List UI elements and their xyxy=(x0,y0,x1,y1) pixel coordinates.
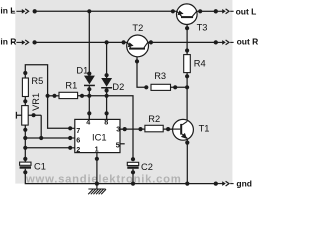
wire D2 cathode to IC pin 8 xyxy=(106,88,108,119)
wire VR1 bottom column xyxy=(24,125,26,162)
transistor T2 xyxy=(124,35,151,57)
wiper end bar xyxy=(15,112,17,119)
svg-text:T1: T1 xyxy=(199,124,210,134)
node C1 top xyxy=(23,157,27,161)
potentiometer VR1 xyxy=(22,106,29,126)
wire IC pin1 down to ground xyxy=(96,153,98,184)
wire C1 bottom to rail xyxy=(25,169,216,184)
node R2 left xyxy=(138,127,142,131)
node R3-R4 junction xyxy=(185,85,189,89)
node D2 bus junction xyxy=(105,94,109,98)
wire IC pin3 to R2 xyxy=(120,128,145,130)
svg-text:out R: out R xyxy=(237,37,258,47)
svg-text:R1: R1 xyxy=(65,81,77,91)
wire R5 to VR1 xyxy=(24,97,26,106)
ground xyxy=(88,184,106,195)
svg-text:8: 8 xyxy=(104,117,108,126)
wire T2 to out R xyxy=(151,41,216,43)
node D1 anode xyxy=(87,72,91,76)
node R4 top xyxy=(185,48,189,52)
page background xyxy=(0,0,258,195)
svg-text:in L: in L xyxy=(0,6,15,16)
wire wiper down to pin6 row xyxy=(40,115,42,138)
wire node bus y96 xyxy=(48,95,59,97)
wire T3 base drop to R4 xyxy=(186,18,188,55)
wire D1 branch xyxy=(88,11,90,75)
wire R5 top feed xyxy=(25,65,47,96)
svg-text:R4: R4 xyxy=(194,59,206,69)
wire in R row left of T2 xyxy=(35,41,124,43)
node R1 right xyxy=(80,94,84,98)
svg-text:C2: C2 xyxy=(141,162,153,172)
node R3 left xyxy=(144,85,148,89)
IC pin 2 stub xyxy=(70,147,75,149)
node IC pin3 xyxy=(123,127,127,131)
wire pin6 row xyxy=(25,137,70,139)
node R3 right xyxy=(173,85,177,89)
node IC pin1 xyxy=(95,157,99,161)
node R4 bottom xyxy=(185,74,189,78)
node VR1 bottom xyxy=(23,128,27,132)
svg-text:1: 1 xyxy=(95,145,99,154)
svg-text:VR1: VR1 xyxy=(31,93,41,111)
node IC pin4 xyxy=(87,111,91,115)
IC pin 3 stub xyxy=(120,128,125,130)
resistor R1 xyxy=(59,92,78,98)
node R2 right xyxy=(166,127,170,131)
node IC pin8 xyxy=(105,111,109,115)
node pin2 row left xyxy=(23,146,27,150)
node D2 anode xyxy=(105,73,109,77)
node T3 collector xyxy=(198,9,202,13)
node rail gnd junction xyxy=(95,182,99,186)
node T2 collector xyxy=(149,40,153,44)
transistor T1 xyxy=(168,119,193,140)
resistor R2 xyxy=(145,125,163,132)
node VR1 wiper tie xyxy=(31,113,35,117)
node IC pin7 xyxy=(68,126,72,130)
wire C2 column xyxy=(132,169,134,184)
node IC pin2 xyxy=(68,146,72,150)
node D2 top junction xyxy=(105,40,109,44)
resistor R4 xyxy=(184,55,191,73)
diode D2 xyxy=(101,78,112,89)
svg-text:in R: in R xyxy=(0,37,16,47)
node D1 bus junction xyxy=(87,94,91,98)
node rail C2 junction xyxy=(131,182,135,186)
svg-text:out L: out L xyxy=(236,7,257,17)
svg-text:R5: R5 xyxy=(31,76,43,86)
wire D1 cathode to IC pin 4 xyxy=(88,86,90,119)
capacitor C1 xyxy=(20,162,31,169)
node D2 cathode xyxy=(105,88,109,92)
connector out R xyxy=(214,40,234,45)
node R1 left xyxy=(52,94,56,98)
node C2 bottom xyxy=(131,170,135,174)
svg-text:4: 4 xyxy=(86,117,90,126)
wire R4 down to T1 collector xyxy=(186,73,188,121)
node T2 emitter xyxy=(122,40,126,44)
node T3 base xyxy=(185,26,189,30)
svg-text:D2: D2 xyxy=(112,82,124,92)
node D1 top junction xyxy=(87,9,91,13)
wire IC pin8 stub xyxy=(106,113,108,119)
wire R3 to R4 junction xyxy=(171,86,188,88)
svg-text:IC1: IC1 xyxy=(92,132,107,143)
svg-text:T2: T2 xyxy=(132,23,143,33)
resistor R5 xyxy=(22,78,28,97)
wire D2 branch xyxy=(106,42,108,78)
capacitor C2 xyxy=(127,162,138,168)
svg-text:2: 2 xyxy=(76,145,80,154)
svg-text:7: 7 xyxy=(76,126,80,135)
svg-text:5: 5 xyxy=(116,140,120,149)
wire pin2 row xyxy=(25,147,70,149)
node T2 base xyxy=(135,59,139,63)
wire in L row xyxy=(35,10,173,12)
svg-text:T3: T3 xyxy=(197,23,208,33)
node T3 emitter xyxy=(171,9,175,13)
wire T2 base drop to R3 xyxy=(137,49,146,87)
wire R2 to T1 base xyxy=(163,128,180,130)
node R5 top xyxy=(23,71,27,75)
svg-text:6: 6 xyxy=(76,136,80,145)
wire R1 right to D2 and down to R2 row xyxy=(78,96,133,159)
svg-text:gnd: gnd xyxy=(236,178,252,188)
wire T1 emitter down to rail xyxy=(186,138,188,183)
resistor R3 xyxy=(151,84,171,90)
connector gnd xyxy=(214,181,234,186)
node pin6 row left xyxy=(23,136,27,140)
node bus left junction xyxy=(46,94,50,98)
svg-text:R3: R3 xyxy=(154,71,166,81)
node R5 bottom xyxy=(23,99,27,103)
wire VR1 wiper xyxy=(16,114,41,116)
node rail T1 junction xyxy=(185,182,189,186)
node D1 cathode xyxy=(87,87,91,91)
connector in R xyxy=(12,40,37,45)
svg-text:3: 3 xyxy=(116,125,120,134)
node C1 bottom xyxy=(23,170,27,174)
svg-text:R2: R2 xyxy=(148,114,160,124)
svg-text:C1: C1 xyxy=(34,161,46,171)
diode D1 xyxy=(84,76,95,87)
svg-text:D1: D1 xyxy=(76,66,88,76)
node pin6 wiper junction xyxy=(39,136,43,140)
schematic canvas xyxy=(15,0,232,184)
connector in L xyxy=(12,9,37,14)
wire pin7 feed xyxy=(48,96,71,129)
wire IC pin5 stub xyxy=(120,143,125,145)
wire T3 to out L xyxy=(200,10,216,12)
node C2 top xyxy=(131,157,135,161)
node IC pin6 xyxy=(68,136,72,140)
wire IC pin4 stub xyxy=(88,113,90,119)
node T1 emitter xyxy=(185,141,189,145)
IC pin 6 stub xyxy=(70,137,75,139)
transistor T3 xyxy=(173,4,200,25)
connector out L xyxy=(214,9,234,14)
op-amp/IC IC1 box xyxy=(75,119,120,152)
IC pin 7 stub xyxy=(70,127,75,129)
